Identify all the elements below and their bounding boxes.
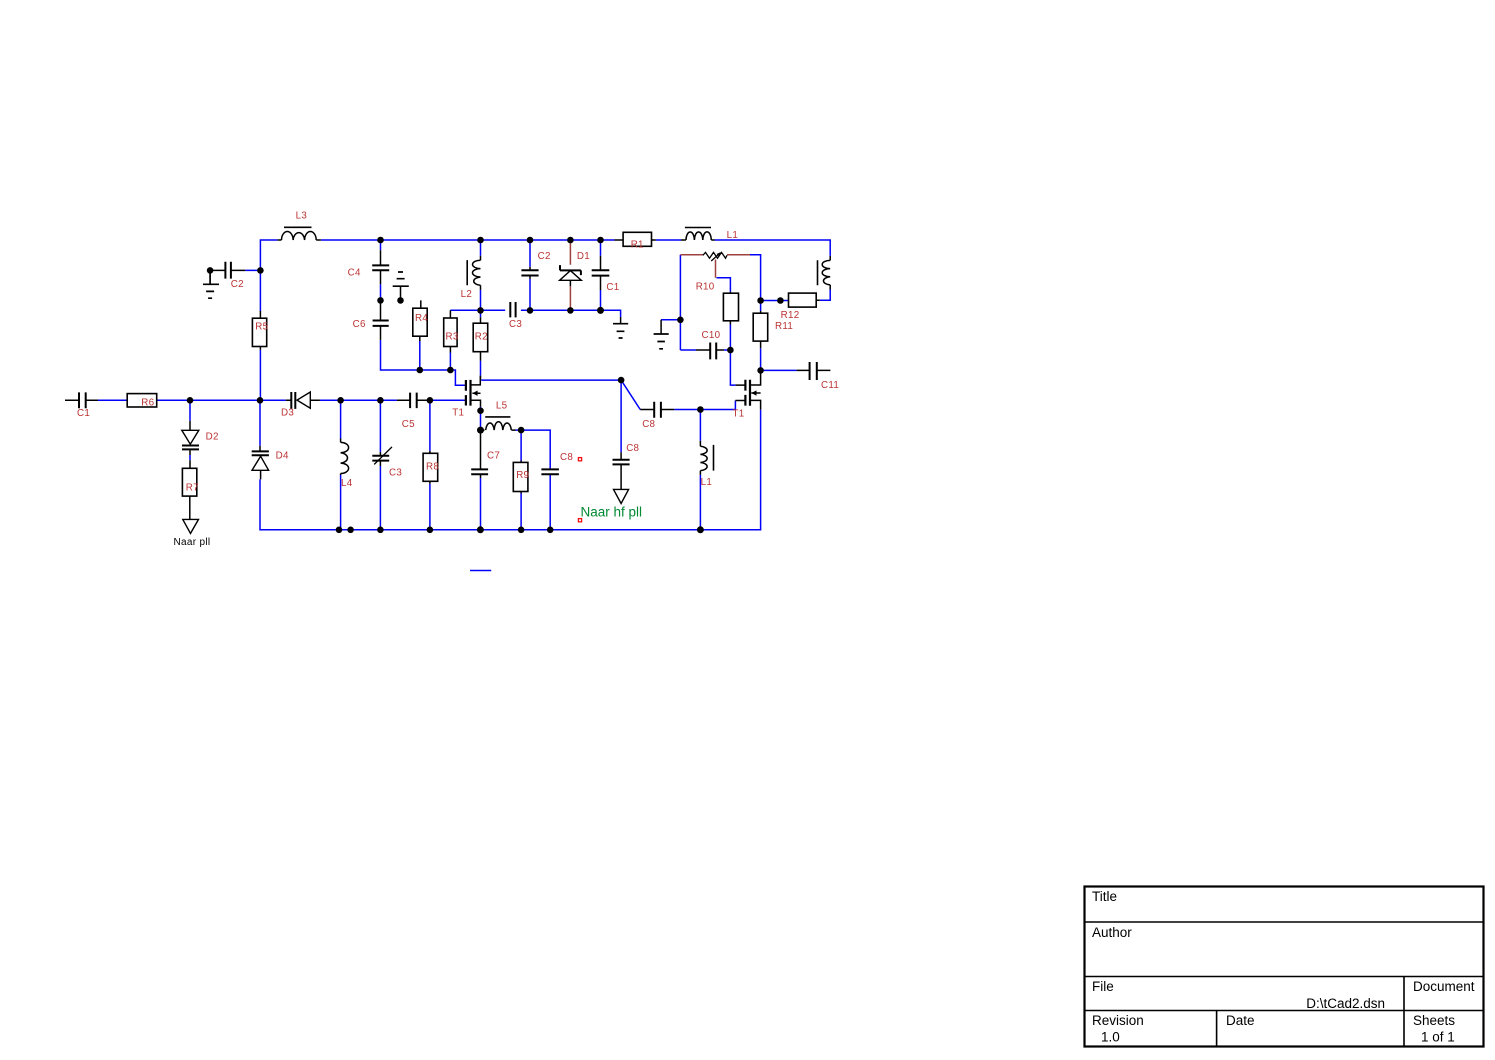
svg-text:C10: C10 — [702, 330, 721, 341]
svg-text:C3: C3 — [389, 468, 402, 479]
svg-text:L3: L3 — [296, 210, 308, 221]
svg-text:R4: R4 — [415, 313, 428, 324]
svg-text:R7: R7 — [186, 483, 199, 494]
svg-text:C2: C2 — [538, 251, 551, 262]
svg-text:D2: D2 — [206, 432, 219, 443]
svg-text:C8: C8 — [560, 452, 573, 463]
svg-text:L1: L1 — [701, 477, 713, 488]
svg-text:D1: D1 — [577, 251, 590, 262]
svg-text:Naar pll: Naar pll — [174, 537, 211, 548]
svg-text:C3: C3 — [509, 319, 522, 330]
svg-text:D4: D4 — [276, 451, 289, 462]
svg-text:R2: R2 — [475, 332, 488, 343]
svg-text:Date: Date — [1226, 1013, 1255, 1028]
svg-text:Title: Title — [1092, 889, 1117, 904]
svg-text:1.0: 1.0 — [1101, 1030, 1120, 1045]
svg-text:R5: R5 — [255, 322, 268, 333]
svg-text:T1: T1 — [733, 409, 745, 420]
svg-text:R6: R6 — [141, 398, 154, 409]
svg-text:D3: D3 — [281, 408, 294, 419]
svg-text:C7: C7 — [487, 451, 500, 462]
svg-text:T1: T1 — [452, 408, 464, 419]
svg-text:R12: R12 — [781, 310, 800, 321]
svg-text:R11: R11 — [775, 321, 793, 332]
svg-text:C1: C1 — [77, 408, 90, 419]
svg-text:1 of 1: 1 of 1 — [1421, 1030, 1455, 1045]
svg-text:C11: C11 — [821, 380, 839, 391]
svg-text:Naar hf pll: Naar hf pll — [581, 505, 643, 520]
svg-text:R1: R1 — [631, 240, 644, 251]
svg-text:Document: Document — [1413, 979, 1475, 994]
svg-text:R10: R10 — [696, 281, 715, 292]
svg-text:L5: L5 — [496, 401, 508, 412]
svg-text:C1: C1 — [606, 282, 619, 293]
svg-text:C8: C8 — [642, 419, 655, 430]
svg-text:File: File — [1092, 979, 1114, 994]
svg-text:C2: C2 — [231, 279, 244, 290]
svg-text:C5: C5 — [402, 419, 415, 430]
svg-text:R9: R9 — [516, 470, 529, 481]
svg-text:L2: L2 — [461, 289, 473, 300]
svg-text:C8: C8 — [626, 443, 639, 454]
svg-text:R8: R8 — [426, 462, 439, 473]
svg-text:Sheets: Sheets — [1413, 1013, 1455, 1028]
svg-text:Revision: Revision — [1092, 1013, 1144, 1028]
svg-text:L1: L1 — [727, 230, 739, 241]
svg-text:C6: C6 — [353, 319, 366, 330]
svg-text:R3: R3 — [446, 332, 459, 343]
svg-text:L4: L4 — [341, 478, 353, 489]
svg-text:C4: C4 — [348, 268, 361, 279]
svg-text:D:\tCad2.dsn: D:\tCad2.dsn — [1306, 996, 1385, 1011]
svg-text:Author: Author — [1092, 925, 1132, 940]
